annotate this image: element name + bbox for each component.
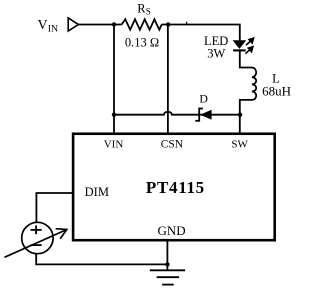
svg-text:DIM: DIM: [85, 185, 109, 199]
svg-text:PT4115: PT4115: [146, 178, 205, 197]
svg-text:IN: IN: [48, 24, 58, 35]
svg-text:0.13 Ω: 0.13 Ω: [125, 36, 159, 50]
svg-text:VIN: VIN: [104, 139, 124, 151]
svg-text:3W: 3W: [207, 46, 225, 60]
svg-text:V: V: [38, 18, 48, 33]
svg-text:SW: SW: [231, 139, 248, 151]
svg-text:68uH: 68uH: [262, 84, 291, 99]
svg-text:D: D: [199, 92, 208, 106]
svg-text:S: S: [146, 6, 151, 16]
svg-text:GND: GND: [158, 223, 186, 238]
svg-text:CSN: CSN: [161, 139, 184, 151]
